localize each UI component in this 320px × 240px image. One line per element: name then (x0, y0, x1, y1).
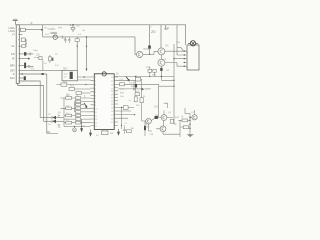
connector J2 right (187, 45, 199, 70)
text labels small (9, 23, 185, 129)
trimmer box T1 (37, 57, 43, 71)
resistor R19 dark (155, 116, 158, 119)
wire pin2 stub (19, 34, 22, 36)
svg-text:1k: 1k (76, 113, 78, 115)
transistor Q3 (158, 55, 177, 68)
label right of IC extra (120, 79, 147, 102)
vertical from bus x166 (165, 25, 167, 30)
capacitor C10 pin4 (19, 45, 27, 48)
wire staircase c (47, 74, 50, 132)
svg-text:1k: 1k (76, 106, 78, 108)
wire x194 stub (194, 110, 196, 115)
svg-text:+B: +B (30, 23, 33, 25)
svg-text:1k: 1k (76, 95, 78, 97)
wire IC pin right to x158 (125, 83, 159, 85)
resistor ladder row6 (64, 114, 91, 117)
resistor R17 below Q1 (148, 67, 152, 78)
ground arrow G2 (117, 129, 119, 135)
crystal Y1 in module (51, 32, 58, 39)
wire x135.7 vertical with cap (135, 76, 137, 88)
resistor ladder row7 (64, 118, 91, 121)
resistor ladder row5 (75, 111, 91, 114)
wire jog above Q5 (163, 103, 180, 134)
svg-text:1N: 1N (58, 113, 61, 115)
resistor R9 right of IC (118, 83, 125, 86)
ground arrow G3 (81, 119, 83, 131)
wire U2 to IC pin rows (77, 76, 90, 80)
vertical from bus x177 (177, 25, 184, 55)
vertical from bus x185 (184, 25, 186, 45)
wire x158 vertical down (158, 84, 160, 117)
svg-text:1N: 1N (58, 127, 61, 129)
diode D2 (44, 120, 64, 126)
capacitor C2 polarized vertical (19, 63, 33, 69)
svg-text:100n: 100n (33, 50, 39, 52)
transistor Q7 (190, 115, 197, 120)
wire fan J2 pin5 (177, 63, 184, 67)
transistor Q2 (158, 48, 187, 55)
bus x173 vertical (173, 44, 183, 124)
IC U1 right pins (114, 77, 118, 125)
svg-text:DET: DET (10, 71, 15, 73)
wire y80 to bus (161, 77, 174, 82)
resistor R13 (179, 119, 191, 122)
IC U1 left pins (91, 77, 95, 126)
transistor Q1 (137, 51, 158, 57)
module U3 bottom line (43, 36, 135, 38)
wire pin12 staircase (18, 83, 44, 121)
svg-text:S-R: S-R (11, 54, 15, 56)
svg-text:BC548: BC548 (144, 49, 152, 51)
wire y86 to bus (159, 86, 175, 87)
svg-text:BC: BC (166, 46, 170, 48)
wire IC top to right (114, 76, 174, 78)
coil cluster L2 (49, 55, 54, 63)
wire q cluster down (149, 124, 153, 131)
wire mid vertical b (86, 36, 88, 71)
wire pin6 arrow (19, 58, 30, 60)
resistor ladder left of IC row1 (64, 97, 91, 100)
wire mid vertical a (76, 41, 78, 70)
diode D4 right area (118, 81, 151, 91)
resistor ladder row2 (75, 100, 91, 103)
resistor R1 (20, 28, 42, 31)
module U3 left edge (42, 25, 44, 37)
resistor R10 right of IC (118, 78, 142, 98)
wire ladder vertical (61, 98, 75, 123)
inductor L1 in module (62, 35, 66, 39)
label module parts (33, 28, 195, 138)
diode D1 (40, 115, 63, 120)
wire rows right of IC (118, 111, 135, 118)
label IC pin numbers (95, 77, 114, 128)
node top bus (19, 24, 186, 26)
vertical from bus x149 with diode D5 (148, 25, 151, 55)
connector J1 pin ticks (18, 30, 19, 81)
resistor R16 cluster (134, 88, 139, 102)
svg-text:1k: 1k (76, 109, 78, 111)
resistor R15 mid right (170, 119, 173, 123)
resistor R6 (69, 88, 91, 91)
svg-text:5.5MHz: 5.5MHz (48, 29, 57, 31)
wire x180 vertical (179, 120, 181, 137)
crystal Y2 below IC (102, 130, 109, 135)
wire x46.8 bottom extension (47, 132, 58, 134)
capacitor C5 below module (64, 37, 67, 43)
capacitor C7 below IC right (123, 125, 126, 134)
resistor R23 right of IC (118, 106, 134, 110)
svg-text:DET: DET (63, 69, 68, 71)
svg-text:LANG: LANG (9, 27, 15, 30)
svg-text:LANG: LANG (9, 30, 15, 33)
arrow A2 right of IC (126, 77, 129, 82)
svg-text:SFE: SFE (58, 28, 63, 30)
resistor R11 vertical (140, 98, 146, 121)
resistor ladder row3 (75, 103, 85, 106)
trimpot X2 (73, 127, 77, 132)
transistor Q5 (158, 111, 173, 121)
resistor R4 below module (75, 37, 79, 41)
resistor R7 (76, 92, 91, 95)
arrow A1 (84, 103, 87, 108)
IC U1 main (94, 72, 114, 130)
transistor Q6 (156, 120, 166, 134)
svg-text:MPX: MPX (10, 65, 15, 67)
vertical from bus x160 (160, 25, 162, 48)
detector box U2 (62, 70, 77, 81)
resistor ladder row4 (64, 107, 91, 110)
wire pin8 long (19, 70, 62, 72)
capacitor C3 polarized (19, 76, 26, 80)
svg-text:4M: 4M (110, 133, 113, 135)
wire ladder bottom bus (64, 123, 91, 127)
resistor R5 (57, 83, 91, 86)
resistor R8 right low (127, 130, 132, 133)
transistor Q4 (146, 118, 155, 124)
wire pin11 staircase (19, 81, 40, 118)
capacitor C6 below module (68, 37, 71, 43)
svg-text:20: 20 (151, 29, 156, 34)
connector J1 left (16, 25, 19, 84)
resistor ladder row8 (64, 121, 91, 124)
resistor R18 below Q2 (153, 69, 156, 76)
svg-text:2SC: 2SC (154, 107, 159, 109)
wire x173 low stub (174, 123, 177, 125)
ground GND right (187, 135, 194, 137)
svg-text:1k: 1k (76, 99, 78, 101)
lamp LP1 on connector (188, 41, 198, 46)
resistor R2 (21, 38, 27, 45)
label ladder values (66, 95, 86, 122)
svg-text:1k: 1k (76, 116, 78, 118)
capacitor C1 polarized (19, 52, 33, 55)
wire x121.5 vertical (121, 107, 122, 129)
power rail bar VCC (13, 19, 18, 25)
diode D3 below Q3 (160, 68, 162, 77)
wire x185 vertical (184, 108, 186, 114)
svg-text:SP: SP (164, 26, 170, 31)
ground arrow G1 (89, 130, 91, 137)
connector J2 pins (184, 51, 188, 67)
svg-text:AGC: AGC (10, 77, 15, 80)
wire x135 down to Q1 (135, 37, 137, 55)
svg-text:1k: 1k (76, 120, 78, 122)
capacitor C4 at module (70, 24, 76, 32)
capacitor C18 dark (144, 121, 146, 136)
wire pin9 long (19, 73, 47, 75)
svg-text:1k: 1k (76, 102, 78, 104)
bus x190 vertical (185, 114, 191, 137)
resistor R14 (180, 126, 190, 129)
